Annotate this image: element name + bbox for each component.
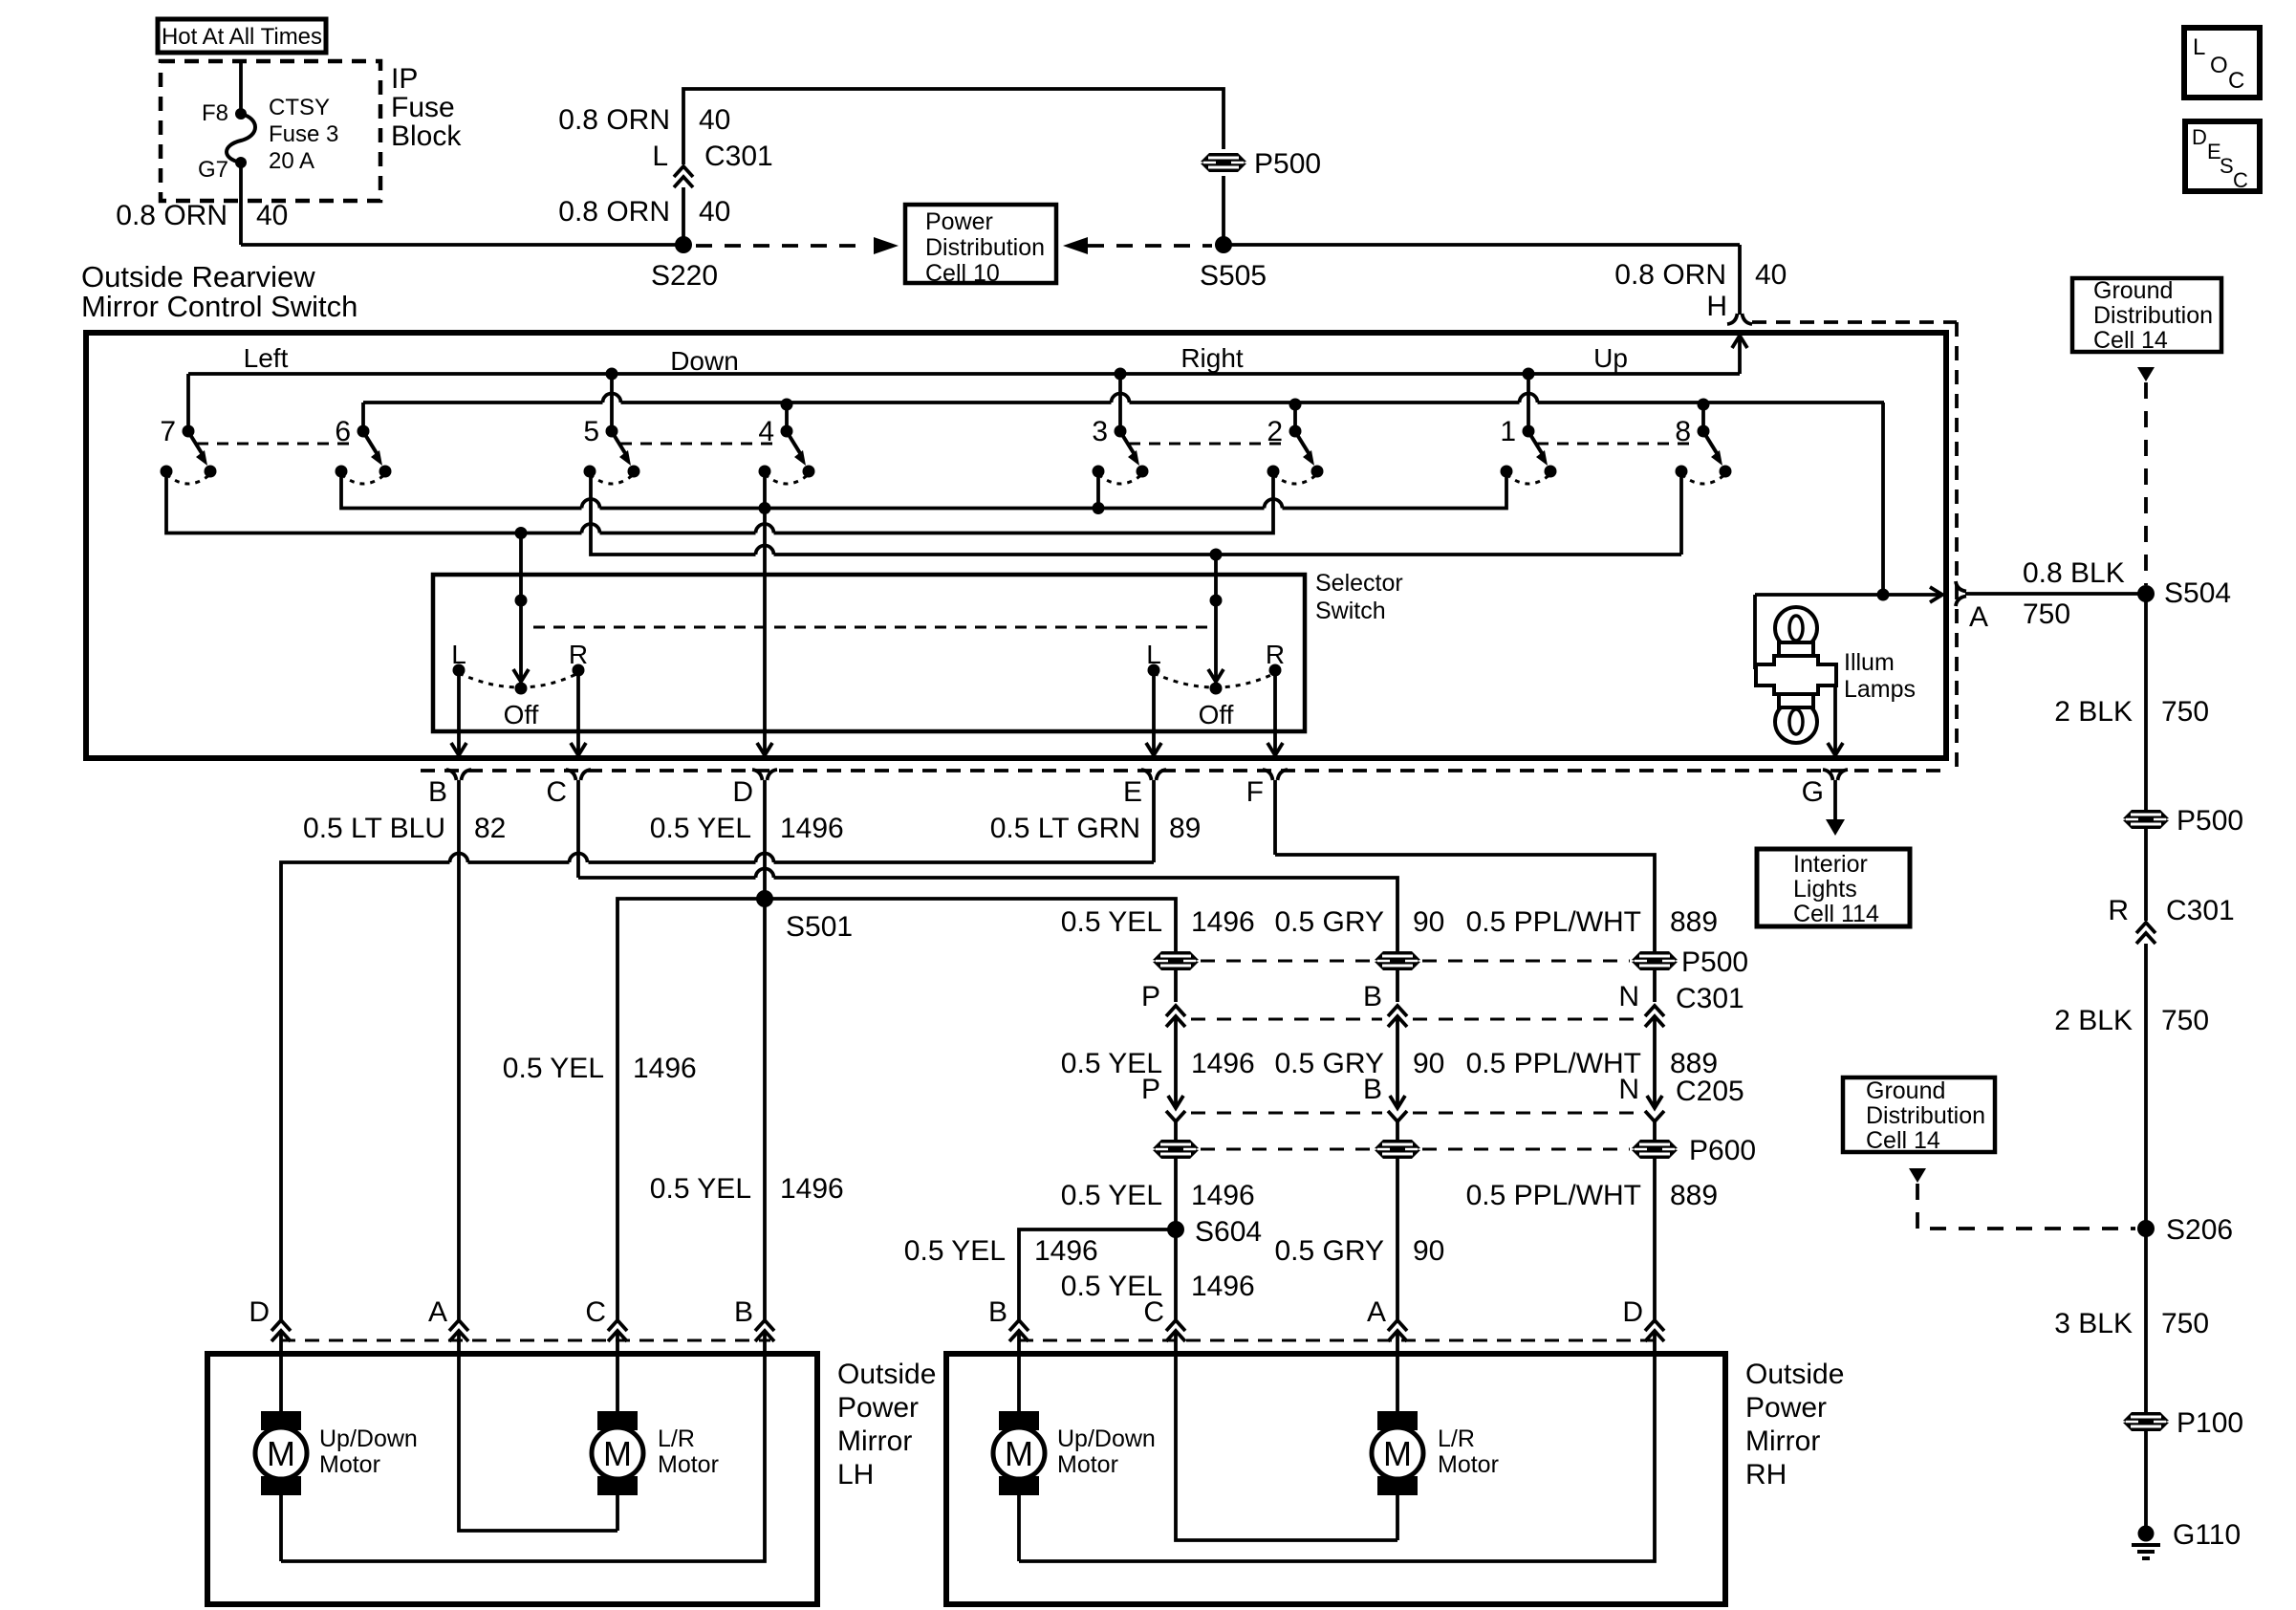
svg-text:0.8 BLK: 0.8 BLK bbox=[2023, 557, 2125, 589]
junction on return bus at switch 4 bbox=[781, 399, 793, 411]
switch 3 arm bbox=[1121, 433, 1134, 453]
riser to switch 6 bbox=[361, 402, 365, 431]
riser to switch 1 bbox=[1527, 374, 1530, 431]
junction line B selector wiper 1 bbox=[515, 527, 528, 539]
svg-text:G110: G110 bbox=[2173, 1519, 2241, 1551]
wire switch 4 contact drop bbox=[763, 471, 767, 509]
svg-text:A: A bbox=[428, 1296, 447, 1328]
svg-text:1496: 1496 bbox=[1034, 1235, 1098, 1267]
selector 2 contact arc bbox=[1154, 673, 1275, 687]
gang dashed link switches 5-4 bbox=[620, 443, 778, 446]
connector P500 inline bbox=[1201, 153, 1246, 172]
connector P500 on PPL wire bbox=[1632, 951, 1678, 970]
return bus segment sw6 to hop at sw5 bbox=[363, 401, 603, 404]
switch 5 arm bbox=[613, 433, 625, 453]
svg-text:N: N bbox=[1618, 1074, 1639, 1105]
svg-text:N: N bbox=[1618, 981, 1639, 1012]
svg-text:B: B bbox=[734, 1296, 753, 1328]
svg-text:C: C bbox=[2233, 168, 2248, 192]
connector C301 chevrons GRY bbox=[1388, 1006, 1407, 1016]
selector wiper 2 junction bbox=[1210, 595, 1223, 607]
svg-text:0.5 PPL/WHT: 0.5 PPL/WHT bbox=[1466, 1048, 1641, 1079]
svg-text:O: O bbox=[2210, 53, 2228, 78]
wire A output line bbox=[1755, 593, 1940, 597]
selector switch box bbox=[433, 575, 1305, 731]
switch 8 contact arc bbox=[1681, 474, 1725, 484]
riser to switch 5 bbox=[610, 374, 614, 431]
LH connector D chevrons bbox=[271, 1320, 291, 1331]
svg-text:750: 750 bbox=[2023, 598, 2070, 630]
svg-text:0.5 PPL/WHT: 0.5 PPL/WHT bbox=[1466, 906, 1641, 938]
switch 2 right contact bbox=[1311, 466, 1324, 478]
motor LH L/R top brush bbox=[597, 1411, 638, 1430]
RH connector B chevrons bbox=[1009, 1320, 1029, 1331]
dashed connector boundary bottom bbox=[421, 769, 1950, 772]
junction line A with switch 3 drop bbox=[1093, 502, 1105, 514]
P500 dashed link 2 bbox=[1422, 960, 1630, 963]
svg-text:Left: Left bbox=[244, 343, 289, 373]
switch 1 arm bbox=[1529, 433, 1542, 453]
svg-text:Hot At All Times: Hot At All Times bbox=[162, 24, 322, 50]
wire E below connector bbox=[1152, 780, 1156, 862]
switch 6 pivot bbox=[357, 425, 370, 438]
svg-text:P600: P600 bbox=[1689, 1135, 1756, 1166]
arrow B at box edge bbox=[451, 743, 466, 755]
switch 6 left contact bbox=[336, 466, 348, 478]
wire RH C down bbox=[1176, 1331, 1397, 1540]
return bus hop over switch 5 riser bbox=[603, 394, 621, 403]
switch 4 left contact bbox=[759, 466, 771, 478]
svg-text:0.5 PPL/WHT: 0.5 PPL/WHT bbox=[1466, 1180, 1641, 1211]
motor RH up/down bottom brush bbox=[999, 1476, 1039, 1495]
LH connector C chevrons bbox=[608, 1320, 627, 1331]
selector 2 L contact bbox=[1148, 664, 1160, 677]
fuse F8 terminal bbox=[235, 108, 247, 120]
svg-text:G7: G7 bbox=[198, 157, 228, 183]
switch 7 arm bbox=[189, 433, 202, 453]
wire S505 to switch feed bbox=[1224, 243, 1740, 247]
svg-text:0.5 YEL: 0.5 YEL bbox=[650, 813, 751, 844]
svg-text:1496: 1496 bbox=[1191, 1048, 1255, 1079]
switch 1 left contact bbox=[1501, 466, 1513, 478]
line B hop over D wire bbox=[756, 524, 774, 533]
svg-text:889: 889 bbox=[1670, 906, 1718, 938]
motor LH up/down top brush bbox=[261, 1411, 301, 1430]
svg-text:889: 889 bbox=[1670, 1180, 1718, 1211]
svg-text:7: 7 bbox=[160, 416, 176, 447]
wire D below connector bbox=[763, 780, 767, 899]
junction on feed bus at switch 3 bbox=[1115, 368, 1127, 381]
Ground Distribution Cell 14 box upper bbox=[2072, 278, 2221, 352]
wire GRY C205 down bbox=[1396, 1120, 1399, 1319]
svg-text:P: P bbox=[1141, 981, 1160, 1012]
wire selector L2 to connector E bbox=[1152, 670, 1156, 754]
gang dashed link switches 3-2 bbox=[1129, 443, 1287, 446]
svg-text:A: A bbox=[1969, 601, 1988, 633]
RH connector dashed line bbox=[1019, 1339, 1660, 1342]
svg-text:3 BLK: 3 BLK bbox=[2054, 1308, 2133, 1339]
svg-text:D: D bbox=[2192, 125, 2207, 149]
LH connector B chevrons bbox=[755, 1320, 774, 1331]
switch 5 contact arc bbox=[590, 474, 634, 484]
LH connector dashed line bbox=[281, 1339, 770, 1342]
node line B segment bbox=[600, 532, 756, 535]
Ground Distribution Cell 14 box lower bbox=[1843, 1077, 1995, 1152]
wire RH L/R motor bottom bbox=[1396, 1495, 1399, 1540]
switch 1 pivot bbox=[1523, 425, 1535, 438]
connector P100 bbox=[2123, 1412, 2169, 1431]
switch 6 right contact bbox=[379, 466, 392, 478]
switch 7 contact arc bbox=[166, 474, 210, 484]
svg-text:D: D bbox=[1622, 1296, 1643, 1328]
svg-text:D: D bbox=[249, 1296, 270, 1328]
svg-text:L: L bbox=[451, 640, 466, 669]
svg-text:S: S bbox=[2220, 154, 2234, 178]
line C hop over D wire bbox=[756, 546, 774, 555]
arrow G at box edge bbox=[1828, 743, 1843, 755]
selector 1 R contact bbox=[573, 664, 585, 677]
connector E bump bbox=[1141, 770, 1152, 780]
switch 4 right contact bbox=[803, 466, 815, 478]
ground G110 symbol bbox=[2138, 1526, 2155, 1542]
wire LH C to L/R motor bbox=[616, 1331, 619, 1411]
splice S505 bbox=[1215, 236, 1232, 253]
arrow C at box edge bbox=[571, 743, 586, 755]
switch 4 contact arc bbox=[765, 474, 809, 484]
wire H to top bus bbox=[1738, 337, 1742, 374]
svg-text:2 BLK: 2 BLK bbox=[2054, 1005, 2133, 1036]
svg-text:M: M bbox=[267, 1434, 295, 1473]
svg-text:L: L bbox=[1146, 640, 1161, 669]
svg-text:0.5 YEL: 0.5 YEL bbox=[1061, 906, 1162, 938]
dashed wire to S504 bbox=[2144, 382, 2148, 585]
svg-text:S505: S505 bbox=[1200, 260, 1267, 292]
svg-text:82: 82 bbox=[474, 813, 506, 844]
svg-text:L: L bbox=[2193, 34, 2205, 60]
connector P600 on YEL wire bbox=[1153, 1140, 1199, 1159]
connector C205 arrow and chevron PPL bbox=[1647, 1096, 1662, 1108]
arrow E at box edge bbox=[1146, 743, 1161, 755]
switch 8 left contact bbox=[1676, 466, 1688, 478]
wire E routed left to LH mirror D bbox=[774, 860, 1155, 864]
wire switch 5 contact to node line C bbox=[591, 471, 756, 555]
wire LH up/down motor bottom bbox=[279, 1495, 283, 1561]
svg-text:B: B bbox=[1363, 981, 1382, 1012]
svg-text:1: 1 bbox=[1500, 416, 1516, 447]
svg-text:40: 40 bbox=[256, 200, 288, 231]
wire YEL C205 to S604 bbox=[1174, 1120, 1178, 1319]
svg-text:0.5 LT BLU: 0.5 LT BLU bbox=[303, 813, 445, 844]
svg-text:S504: S504 bbox=[2164, 577, 2231, 609]
svg-text:0.5 YEL: 0.5 YEL bbox=[650, 1173, 751, 1205]
svg-text:R: R bbox=[569, 640, 588, 669]
riser to switch 8 bbox=[1701, 402, 1705, 431]
wire selector R2 to connector F bbox=[1273, 670, 1277, 754]
wire switch 8 contact drop to line C bbox=[1679, 471, 1683, 555]
wire D through selector box bbox=[763, 509, 767, 755]
node line A segment to switch 1 bbox=[1283, 471, 1507, 509]
switch 8 right contact bbox=[1720, 466, 1732, 478]
Power Distribution Cell 10 box bbox=[905, 205, 1056, 283]
P600 dashed link 1 bbox=[1201, 1148, 1373, 1151]
arrow from Ground Distribution upper bbox=[2137, 367, 2155, 381]
svg-text:0.5 GRY: 0.5 GRY bbox=[1274, 1235, 1384, 1267]
RH connector C chevrons bbox=[1166, 1320, 1185, 1331]
selector wiper 1 junction bbox=[515, 595, 528, 607]
return bus segment to hop at sw1 bbox=[1130, 401, 1520, 404]
svg-text:3: 3 bbox=[1092, 416, 1108, 447]
svg-text:G: G bbox=[1802, 776, 1824, 808]
junction line C selector wiper 2 bbox=[1210, 549, 1223, 561]
switch 8 pivot bbox=[1698, 425, 1710, 438]
svg-text:1496: 1496 bbox=[1191, 1271, 1255, 1302]
switch 2 arm bbox=[1296, 433, 1309, 453]
wire selector wiper 1 drop bbox=[519, 533, 523, 682]
wire G below connector bbox=[1833, 780, 1837, 819]
dashed connector boundary top right bbox=[1752, 320, 1957, 324]
svg-text:Right: Right bbox=[1180, 343, 1244, 373]
connector F bump bbox=[1263, 770, 1273, 780]
gang dashed link switches 7-6 bbox=[197, 443, 355, 446]
riser to switch 4 bbox=[785, 402, 789, 431]
splice S604 bbox=[1167, 1221, 1184, 1238]
P600 dashed link 2 bbox=[1422, 1148, 1630, 1151]
Interior Lights Cell 114 box bbox=[1757, 849, 1910, 926]
svg-text:1496: 1496 bbox=[780, 1173, 844, 1205]
connector C bump bbox=[566, 770, 576, 780]
wire switch 3 contact drop bbox=[1096, 471, 1100, 509]
Outside Power Mirror LH box bbox=[207, 1354, 817, 1604]
svg-text:F: F bbox=[1246, 776, 1264, 808]
svg-text:C: C bbox=[2228, 68, 2244, 94]
wire selector L1 to connector B bbox=[457, 670, 461, 754]
wire selector R1 to connector C bbox=[576, 670, 580, 754]
switch 1 contact arc bbox=[1506, 474, 1550, 484]
wire C below connector bbox=[576, 780, 580, 878]
wire switch 7 contact to node line B bbox=[166, 471, 582, 533]
svg-text:F8: F8 bbox=[202, 100, 228, 126]
svg-text:B: B bbox=[1363, 1074, 1382, 1105]
svg-text:L: L bbox=[652, 141, 668, 172]
selector 1 L contact bbox=[453, 664, 466, 677]
LH connector A chevrons bbox=[449, 1320, 468, 1331]
arrow F at box edge bbox=[1267, 743, 1283, 755]
RH connector A chevrons bbox=[1388, 1320, 1407, 1331]
motor RH L/R top brush bbox=[1377, 1411, 1418, 1430]
selector wiper 1 arrow bbox=[513, 669, 529, 682]
connector C301 chevrons PPL bbox=[1645, 1006, 1664, 1016]
svg-text:P: P bbox=[1141, 1074, 1160, 1105]
connector P600 on PPL wire bbox=[1632, 1140, 1678, 1159]
svg-text:R: R bbox=[1266, 640, 1285, 669]
wire B below connector bbox=[457, 780, 461, 1319]
wire A to S504 bbox=[1965, 592, 2146, 596]
svg-text:1496: 1496 bbox=[1191, 1180, 1255, 1211]
svg-text:0.5 GRY: 0.5 GRY bbox=[1274, 906, 1384, 938]
splice S504 bbox=[2137, 585, 2155, 602]
wire RH D down bbox=[1019, 1331, 1655, 1561]
line B hop over switch 5 drop bbox=[582, 524, 600, 533]
switch 1 right contact bbox=[1545, 466, 1557, 478]
wire from hot feed into fuse bbox=[239, 61, 243, 114]
svg-text:S220: S220 bbox=[651, 260, 718, 292]
wire 0.8 ORN horizontal to S220 bbox=[241, 243, 683, 247]
illum lamp bottom bulb bbox=[1775, 701, 1817, 743]
switch 3 pivot bbox=[1115, 425, 1127, 438]
selector 2 R contact bbox=[1269, 664, 1282, 677]
return bus segment to hop at sw3 bbox=[621, 401, 1112, 404]
connector A bump bbox=[1956, 581, 1966, 592]
splice S501 bbox=[756, 890, 773, 907]
svg-text:M: M bbox=[1383, 1434, 1412, 1473]
svg-text:C205: C205 bbox=[1676, 1076, 1744, 1107]
wire YEL C301 to C205 bbox=[1174, 1016, 1178, 1107]
motor RH up/down body bbox=[993, 1427, 1045, 1479]
connector C301 chevrons YEL bbox=[1166, 1006, 1185, 1016]
svg-text:B: B bbox=[428, 776, 447, 808]
connector P500 on ground wire bbox=[2123, 810, 2169, 829]
junction line A with D wire bbox=[759, 502, 771, 514]
wire S220 up to C301 bbox=[682, 187, 685, 245]
svg-text:0.5 YEL: 0.5 YEL bbox=[503, 1053, 604, 1084]
wire RH up/down motor bottom bbox=[1017, 1495, 1021, 1561]
connector D bump bbox=[752, 770, 763, 780]
switch 3 contact arc bbox=[1098, 474, 1142, 484]
arrow D at box edge bbox=[757, 743, 772, 755]
svg-text:H: H bbox=[1706, 291, 1727, 322]
return bus hop over switch 3 riser bbox=[1112, 394, 1130, 403]
wire LH B down bbox=[281, 1331, 765, 1561]
svg-text:0.5 LT GRN: 0.5 LT GRN bbox=[990, 813, 1140, 844]
svg-text:D: D bbox=[732, 776, 753, 808]
Hot At All Times box bbox=[158, 19, 326, 53]
svg-text:C: C bbox=[1143, 1296, 1164, 1328]
svg-text:0.8 ORN: 0.8 ORN bbox=[558, 196, 670, 228]
connector B bump bbox=[446, 770, 457, 780]
node line C segment bbox=[774, 553, 1682, 556]
illum lamp feed wire from A line bbox=[1753, 595, 1757, 669]
svg-text:750: 750 bbox=[2161, 1308, 2209, 1339]
switch 4 pivot bbox=[781, 425, 793, 438]
riser to switch 7 bbox=[186, 374, 190, 431]
line A hop over switch 5 drop bbox=[582, 499, 600, 509]
splice S220 bbox=[675, 236, 692, 253]
dashed reference wire S505 to Power Distribution bbox=[1088, 244, 1212, 248]
node line B segment to switch 2 bbox=[774, 471, 1274, 533]
svg-text:A: A bbox=[1367, 1296, 1386, 1328]
ground wire S504 down bbox=[2144, 594, 2148, 921]
return bus hop over switch 1 riser bbox=[1520, 394, 1538, 403]
LOC legend box bbox=[2184, 28, 2260, 98]
illum junction on A line bbox=[1877, 589, 1890, 601]
switch 5 left contact bbox=[584, 466, 596, 478]
ground wire below C301 bbox=[2144, 944, 2148, 1225]
wire S501 left branch to LH mirror C bbox=[617, 899, 765, 1319]
svg-text:B: B bbox=[988, 1296, 1007, 1328]
motor RH L/R body bbox=[1372, 1427, 1423, 1479]
dashed reference wire S220 to Power Distribution bbox=[696, 244, 865, 248]
wire S501 down to LH mirror B bbox=[763, 899, 767, 1319]
wire illum lamp to connector G bbox=[1833, 685, 1837, 754]
svg-text:P100: P100 bbox=[2177, 1407, 2243, 1439]
svg-text:1496: 1496 bbox=[780, 813, 844, 844]
svg-text:0.8 ORN: 0.8 ORN bbox=[116, 200, 227, 231]
connector C301 chevrons ground bbox=[2136, 923, 2155, 933]
connector H bump on dashed boundary bbox=[1727, 314, 1738, 324]
fuse CTSY Fuse 3 element bbox=[227, 114, 255, 163]
selector wiper 2 arrow bbox=[1208, 669, 1224, 682]
svg-text:C301: C301 bbox=[704, 141, 773, 172]
splice S206 bbox=[2137, 1220, 2155, 1237]
line A hop over switch 2 drop bbox=[1265, 499, 1283, 509]
svg-text:Down: Down bbox=[670, 346, 739, 376]
svg-text:Off: Off bbox=[1199, 700, 1234, 729]
selector 1 contact arc bbox=[459, 673, 578, 687]
svg-text:S604: S604 bbox=[1195, 1216, 1262, 1248]
wire P500 down to S505 bbox=[1222, 176, 1225, 245]
arrow into Power Distribution from right bbox=[1063, 237, 1088, 254]
return bus drop to illum feed bbox=[1881, 402, 1885, 594]
wire LH L/R motor bottom bbox=[616, 1495, 619, 1531]
dashed connector boundary right side bbox=[1955, 322, 1959, 771]
switch 7 right contact bbox=[205, 466, 217, 478]
connector C301 chevrons bbox=[674, 166, 693, 177]
svg-text:0.5 YEL: 0.5 YEL bbox=[904, 1235, 1006, 1267]
svg-text:40: 40 bbox=[1755, 259, 1787, 291]
Outside Power Mirror RH box bbox=[946, 1354, 1725, 1604]
selector gang dashed link bbox=[533, 626, 1213, 629]
svg-text:P500: P500 bbox=[1254, 148, 1321, 180]
riser to switch 3 bbox=[1118, 374, 1122, 431]
svg-text:C301: C301 bbox=[2166, 895, 2235, 926]
connector C205 arrow and chevron GRY bbox=[1390, 1096, 1405, 1108]
switch 2 pivot bbox=[1289, 425, 1302, 438]
svg-text:89: 89 bbox=[1169, 813, 1201, 844]
svg-text:1496: 1496 bbox=[1191, 906, 1255, 938]
wire S604 branch to RH mirror B bbox=[1019, 1229, 1176, 1319]
svg-text:40: 40 bbox=[699, 104, 730, 136]
wire down to connector H bbox=[1738, 245, 1742, 315]
switch 8 arm bbox=[1704, 433, 1717, 453]
motor LH L/R body bbox=[592, 1427, 643, 1479]
selector 2 Off contact bbox=[1210, 683, 1223, 695]
motor LH L/R bottom brush bbox=[597, 1476, 638, 1495]
svg-text:90: 90 bbox=[1413, 1048, 1444, 1079]
mirror control switch box bbox=[86, 333, 1946, 758]
arrow from Ground Distribution lower bbox=[1909, 1168, 1926, 1183]
connector C205 arrow and chevron YEL bbox=[1168, 1096, 1183, 1108]
motor LH up/down bottom brush bbox=[261, 1476, 301, 1495]
ground wire S206 down bbox=[2144, 1229, 2148, 1528]
svg-text:Off: Off bbox=[504, 700, 539, 729]
switch 7 pivot bbox=[183, 425, 195, 438]
feed bus Left-Down-Right-Up bbox=[188, 372, 1740, 376]
DESC legend box bbox=[2185, 121, 2260, 191]
wire RH B to up/down motor bbox=[1017, 1331, 1021, 1411]
svg-text:2 BLK: 2 BLK bbox=[2054, 696, 2133, 728]
switch 2 contact arc bbox=[1273, 474, 1317, 484]
switch 6 arm bbox=[364, 433, 377, 453]
wire LH A down bbox=[459, 1331, 617, 1531]
gang dashed link switches 1-8 bbox=[1537, 443, 1695, 446]
wire F routed right to PPL wire bbox=[1275, 855, 1655, 1002]
wire PPL C301 to C205 bbox=[1653, 1016, 1657, 1107]
RH connector D chevrons bbox=[1645, 1320, 1664, 1331]
connector P500 on YEL wire bbox=[1153, 951, 1199, 970]
svg-text:M: M bbox=[1005, 1434, 1033, 1473]
arrow H into switch bus bbox=[1732, 336, 1747, 348]
svg-text:750: 750 bbox=[2161, 1005, 2209, 1036]
